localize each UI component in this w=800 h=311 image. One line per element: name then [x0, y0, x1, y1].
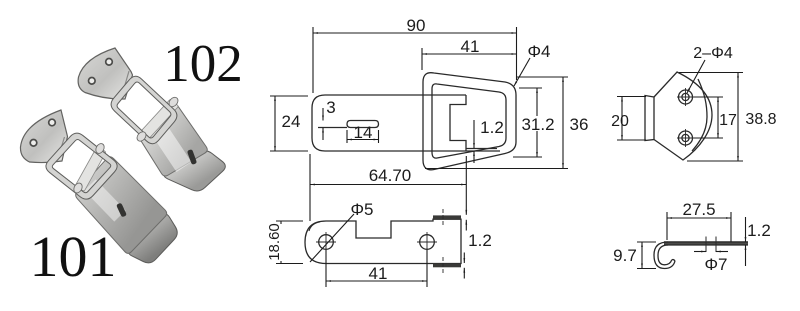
leader 2-phi4 — [687, 60, 705, 93]
wire loop (bail) — [111, 76, 177, 144]
svg-text:24: 24 — [282, 112, 301, 131]
svg-text:64.70: 64.70 — [369, 166, 412, 185]
pivot knuckle — [72, 182, 84, 195]
svg-text:36: 36 — [570, 115, 589, 134]
profile top line — [664, 241, 748, 243]
dim 41 (holes) — [325, 250, 327, 287]
svg-text:Φ7: Φ7 — [704, 255, 727, 274]
lobe crease arc — [309, 222, 320, 231]
dim 41 — [422, 53, 517, 55]
dim 38.8 — [737, 73, 739, 162]
pivot knuckle — [167, 96, 180, 109]
svg-text:102: 102 — [163, 35, 243, 93]
svg-text:101: 101 — [30, 224, 117, 289]
hole left — [319, 235, 334, 250]
dim texts drawing 1 — [282, 16, 551, 142]
pivot knuckle — [94, 142, 106, 155]
dim 64.70 — [310, 184, 466, 186]
svg-text:38.8: 38.8 — [745, 111, 776, 128]
flange fold line — [122, 71, 130, 97]
loop inner — [432, 84, 506, 158]
hook end (foot) — [164, 151, 225, 191]
dim 20 — [621, 97, 623, 141]
hole upper — [679, 90, 693, 104]
profile bottom line — [664, 244, 748, 246]
slot in body — [347, 121, 379, 128]
screw hole — [89, 78, 96, 85]
screw hole — [106, 59, 113, 66]
plate thickness line — [466, 148, 497, 150]
svg-text:Φ4: Φ4 — [527, 42, 550, 61]
bent catch tab on lever — [139, 100, 178, 141]
svg-text:31.2: 31.2 — [521, 115, 554, 134]
wire loop (bail) — [46, 133, 117, 199]
svg-text:41: 41 — [369, 264, 388, 283]
hole right — [420, 235, 435, 250]
folded edge top — [433, 215, 461, 219]
svg-text:17: 17 — [719, 112, 737, 129]
pivot knuckle — [135, 130, 148, 143]
phi7 arrows — [694, 251, 706, 253]
svg-text:90: 90 — [407, 16, 426, 35]
svg-text:1.2: 1.2 — [747, 221, 771, 240]
dim 18.60 — [280, 221, 282, 264]
dim 3 — [322, 108, 324, 121]
hook end (foot) — [128, 214, 177, 263]
dim 31.2 — [536, 88, 538, 157]
slot in lever — [187, 150, 196, 165]
svg-text:2–Φ4: 2–Φ4 — [693, 45, 733, 62]
centerline ticks — [442, 209, 444, 274]
screw hole — [49, 119, 56, 126]
slot bottom line to left — [318, 127, 347, 129]
lever highlight — [151, 123, 192, 172]
dim 17 — [717, 97, 719, 138]
svg-text:9.7: 9.7 — [613, 246, 637, 265]
hook curl — [654, 242, 675, 269]
svg-text:1.2: 1.2 — [480, 118, 504, 137]
svg-text:Φ5: Φ5 — [350, 200, 373, 219]
flange — [645, 96, 654, 141]
dim 27.5 — [667, 217, 731, 219]
svg-text:14: 14 — [354, 123, 373, 142]
lever highlight — [84, 179, 125, 221]
bent catch tab on lever — [76, 147, 106, 190]
leader phi4 — [514, 58, 530, 86]
lever plate — [76, 157, 167, 254]
dim 24 — [274, 96, 276, 151]
bracket cut at body right end — [450, 95, 466, 151]
screw hole — [30, 140, 37, 147]
dim 1.2 (folded edge) — [463, 253, 465, 264]
leader phi5 — [310, 214, 354, 262]
folded edge bottom — [433, 264, 461, 268]
loop outer — [423, 73, 516, 170]
flange fold line — [58, 137, 65, 160]
lever plate — [140, 104, 208, 176]
lever body outline — [312, 95, 500, 151]
profile plate bar — [664, 241, 748, 245]
dim 1.2 — [745, 217, 747, 242]
fan outline — [654, 72, 712, 160]
svg-text:18.60: 18.60 — [266, 223, 283, 261]
dim 14 — [346, 130, 348, 143]
svg-text:3: 3 — [326, 98, 335, 117]
svg-text:27.5: 27.5 — [682, 200, 715, 219]
dim 36 — [562, 77, 564, 168]
svg-text:20: 20 — [611, 113, 629, 130]
base plate (fan) of latch 101 — [20, 110, 67, 163]
dim 9.7 — [641, 242, 643, 269]
inner arc — [692, 79, 707, 151]
dim 1.2 (loop) — [473, 120, 475, 148]
svg-text:1.2: 1.2 — [468, 231, 492, 250]
dim 90 — [313, 32, 517, 34]
hole lower — [679, 131, 693, 145]
plate outline — [305, 219, 461, 263]
svg-text:41: 41 — [461, 37, 480, 56]
base plate (fan) of latch 102 — [78, 48, 132, 99]
phi7 hole edges — [706, 237, 716, 253]
slot in lever — [117, 203, 127, 217]
